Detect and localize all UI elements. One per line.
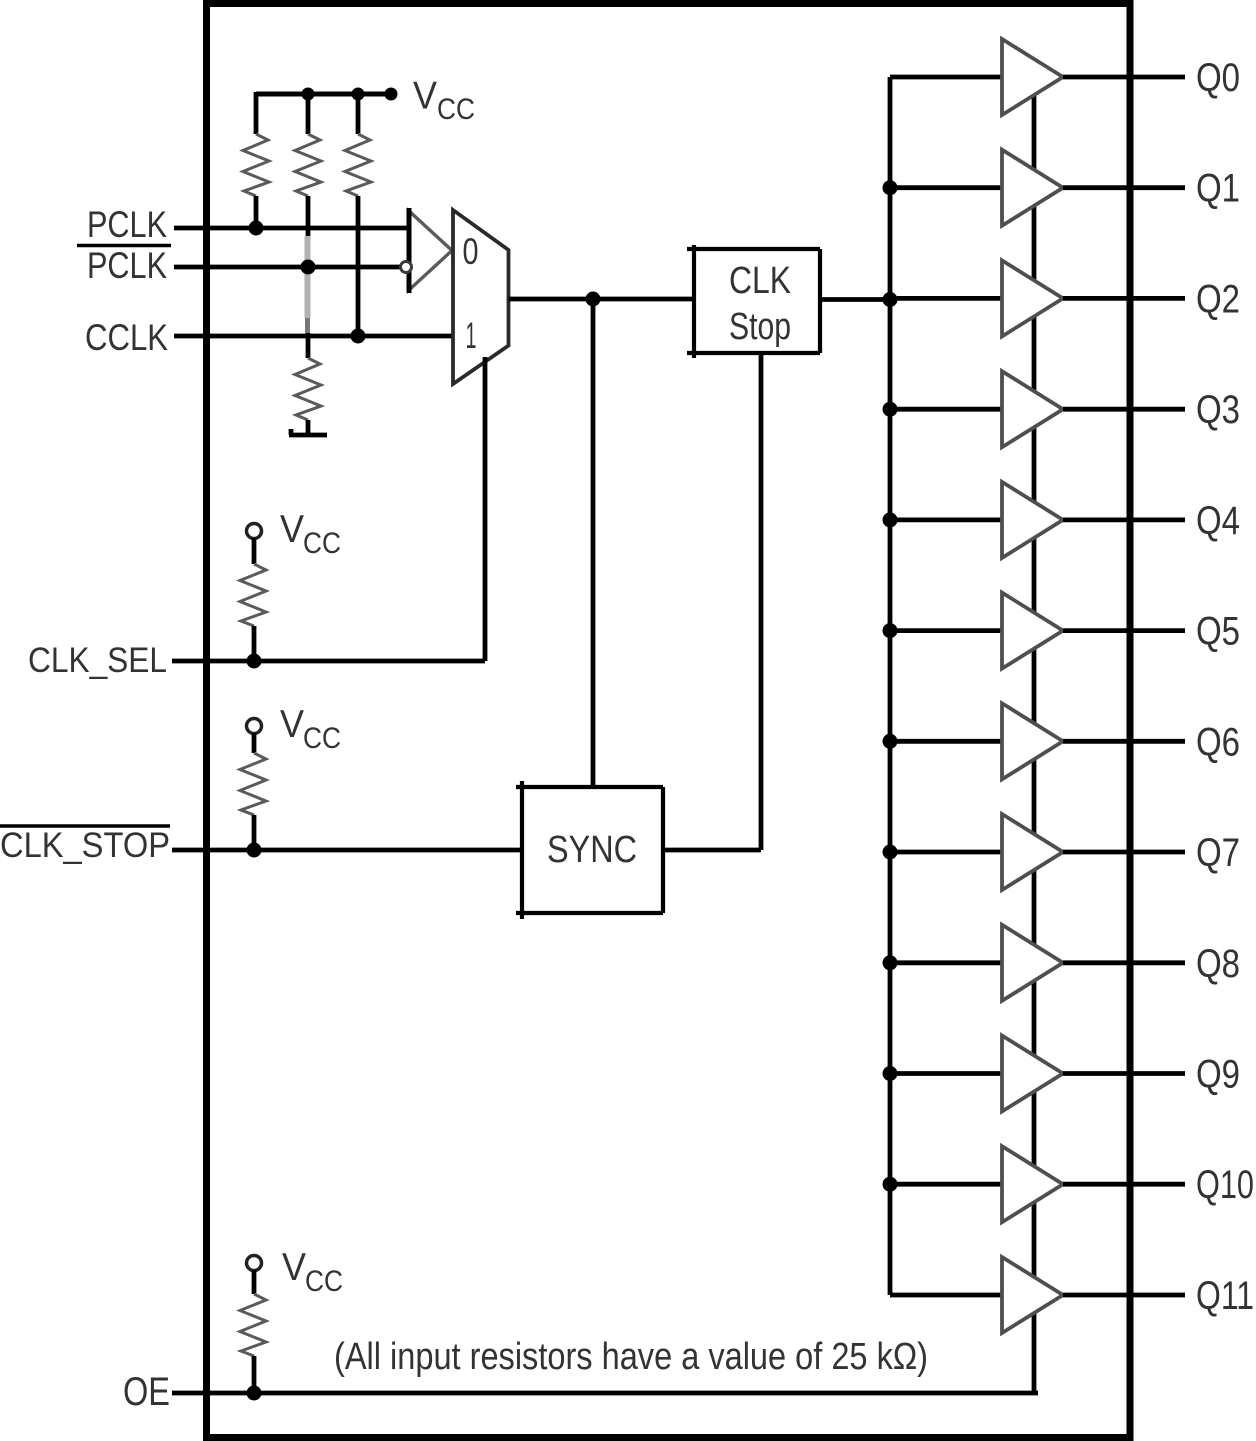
- input buffer U1 (differential receiver): [409, 208, 452, 293]
- PCLKb overline: [77, 244, 171, 248]
- Q9 label: [1196, 1053, 1240, 1097]
- inverting bubble on U1: [401, 262, 412, 273]
- junction PCLK/R1: [249, 221, 264, 236]
- resistor R6 (CLK_STOP pull-up): [240, 753, 266, 815]
- Q3 output wire: [1063, 407, 1185, 412]
- junction CLK_STOP/R6: [247, 843, 262, 858]
- CLK Stop block: [687, 245, 820, 358]
- svg-text:CC: CC: [303, 527, 341, 560]
- buffer Q2: [1002, 260, 1063, 336]
- buffer Q3: [1002, 371, 1063, 447]
- junction bus Q5: [883, 623, 898, 638]
- buffer Q8: [1002, 925, 1063, 1001]
- device boundary box: [207, 4, 1131, 1438]
- Q1 input wire: [890, 185, 1002, 190]
- junction at rail end: [385, 88, 398, 101]
- junction bus Q1: [883, 180, 898, 195]
- svg-text:(All input resistors have a va: (All input resistors have a value of 25 …: [334, 1336, 928, 1378]
- buffer Q4: [1002, 482, 1063, 558]
- junction bus Q3: [883, 402, 898, 417]
- svg-text:Stop: Stop: [729, 306, 791, 348]
- Q4 input wire: [890, 518, 1002, 523]
- buffer Q10: [1002, 1146, 1063, 1222]
- svg-text:CLK_STOP: CLK_STOP: [0, 826, 170, 865]
- SYNC block: [516, 781, 663, 919]
- junction CCLK/R3: [351, 329, 366, 344]
- junction on rail at R2: [302, 88, 315, 101]
- Vcc terminal (CLK_SEL): [247, 524, 262, 539]
- Vcc label (top): [413, 75, 475, 127]
- junction CLK Stop output / bus: [883, 292, 898, 307]
- wire CLK_SEL to mux select: [483, 357, 488, 661]
- junction on rail at R3: [352, 88, 365, 101]
- CCLK label: [85, 317, 168, 358]
- Q4 label: [1196, 499, 1240, 543]
- svg-text:PCLK: PCLK: [87, 204, 167, 245]
- wire faint vertical PCLKb to CCLK: [305, 236, 311, 333]
- mux input label 1: [466, 315, 477, 356]
- wire R6 bottom lead: [252, 815, 257, 850]
- Q7 input wire: [890, 850, 1002, 855]
- svg-text:Q1: Q1: [1196, 167, 1240, 211]
- svg-text:CLK: CLK: [729, 260, 791, 302]
- mux U2: [453, 210, 509, 384]
- Q3 label: [1196, 388, 1240, 432]
- wire mux output: [509, 297, 695, 302]
- Q11 output wire: [1063, 1293, 1185, 1298]
- junction bus Q6: [883, 734, 898, 749]
- svg-text:CLK_SEL: CLK_SEL: [28, 641, 167, 680]
- Q2 input wire: [890, 296, 1002, 301]
- Q6 input wire: [890, 739, 1002, 744]
- resistor R1 (PCLK pull-up): [243, 134, 269, 196]
- note text: [334, 1336, 928, 1378]
- buffer Q1: [1002, 150, 1063, 226]
- PCLK label: [87, 204, 167, 245]
- PCLKb label: [87, 245, 167, 286]
- wire SYNC output: [663, 848, 761, 853]
- OE label: [123, 1370, 170, 1414]
- wire R7 bottom lead: [252, 1356, 257, 1393]
- wire CCLK to resistor R4: [306, 333, 311, 358]
- wire R7 top lead: [252, 1270, 257, 1294]
- Vcc terminal (CLK_STOP): [247, 719, 262, 734]
- Vcc rail (top): [256, 92, 391, 97]
- buffer Q9: [1002, 1036, 1063, 1112]
- wire R2 top lead: [306, 92, 311, 134]
- svg-text:SYNC: SYNC: [547, 829, 637, 871]
- Vcc terminal (OE): [247, 1256, 262, 1271]
- wire R2 bottom lead: [306, 196, 311, 236]
- Q10 output wire: [1063, 1182, 1185, 1187]
- junction OE/R7: [247, 1386, 262, 1401]
- svg-text:Q5: Q5: [1196, 610, 1240, 654]
- svg-text:Q4: Q4: [1196, 499, 1240, 543]
- Q2 output wire: [1063, 296, 1185, 301]
- wire R5 top lead: [252, 538, 257, 564]
- Q9 input wire: [890, 1071, 1002, 1076]
- buffer Q6: [1002, 703, 1063, 779]
- Q7 output wire: [1063, 850, 1185, 855]
- OE wire: [172, 1391, 1038, 1396]
- Vcc label (OE): [282, 1246, 343, 1298]
- svg-text:V: V: [280, 508, 304, 551]
- svg-text:Q6: Q6: [1196, 720, 1240, 764]
- CLK_STOP label: [0, 826, 170, 865]
- junction bus Q8: [883, 955, 898, 970]
- buffer Q0: [1002, 39, 1063, 115]
- svg-text:Q7: Q7: [1196, 831, 1240, 875]
- resistor R2 (PCLKb pull-up): [295, 134, 321, 196]
- wire CLK_STOP: [172, 848, 522, 853]
- svg-text:0: 0: [463, 231, 479, 272]
- svg-text:Q11: Q11: [1196, 1274, 1254, 1318]
- CCLK input wire: [174, 334, 453, 339]
- Q3 input wire: [890, 407, 1002, 412]
- svg-text:CC: CC: [303, 722, 341, 755]
- PCLKb input wire: [174, 265, 401, 270]
- wire R3 bottom lead: [356, 196, 361, 336]
- svg-text:Q0: Q0: [1196, 56, 1240, 100]
- junction bus Q9: [883, 1066, 898, 1081]
- Q6 output wire: [1063, 739, 1185, 744]
- Q1 label: [1196, 167, 1240, 211]
- junction bus Q10: [883, 1177, 898, 1192]
- resistor R3 (CCLK pull-up): [345, 134, 371, 196]
- wire R6 top lead: [252, 733, 257, 753]
- mux input label 0: [463, 231, 479, 272]
- Vcc label (CLK_SEL): [280, 508, 341, 560]
- wire R5 bottom lead: [252, 626, 257, 661]
- resistor R5 (CLK_SEL pull-up): [240, 564, 266, 626]
- PCLK input wire: [174, 226, 409, 231]
- Q1 output wire: [1063, 185, 1185, 190]
- buffer Q7: [1002, 814, 1063, 890]
- Q11 input wire: [890, 1293, 1002, 1298]
- Vcc label (CLK_STOP): [280, 703, 341, 755]
- junction CLK_SEL/R5: [247, 654, 262, 669]
- buffer Q5: [1002, 593, 1063, 669]
- svg-text:Q3: Q3: [1196, 388, 1240, 432]
- ground: [289, 429, 327, 435]
- Q8 label: [1196, 942, 1240, 986]
- svg-text:CC: CC: [305, 1265, 343, 1298]
- resistor R7 (OE pull-up): [240, 1294, 266, 1356]
- svg-text:CCLK: CCLK: [85, 317, 168, 358]
- Q4 output wire: [1063, 518, 1185, 523]
- svg-text:CC: CC: [437, 93, 475, 126]
- junction bus Q7: [883, 845, 898, 860]
- svg-text:V: V: [280, 703, 304, 746]
- resistor R4 (pull-down): [295, 358, 321, 420]
- wire R3 top lead: [356, 92, 361, 134]
- svg-text:PCLK: PCLK: [87, 245, 167, 286]
- svg-text:1: 1: [466, 315, 477, 356]
- buffer Q11: [1002, 1257, 1063, 1333]
- wire CLK Stop output: [820, 297, 890, 302]
- Q10 input wire: [890, 1182, 1002, 1187]
- svg-text:Q10: Q10: [1196, 1163, 1254, 1207]
- wire R1 top lead: [254, 92, 259, 134]
- junction mux output / SYNC tap: [586, 292, 601, 307]
- Q7 label: [1196, 831, 1240, 875]
- svg-text:V: V: [282, 1246, 306, 1289]
- Q2 label: [1196, 277, 1240, 321]
- CLK_SEL label: [28, 641, 167, 680]
- Q5 output wire: [1063, 628, 1185, 633]
- wire CLK_SEL: [172, 659, 485, 664]
- svg-text:Q2: Q2: [1196, 277, 1240, 321]
- Q8 output wire: [1063, 960, 1185, 965]
- junction bus Q4: [883, 512, 898, 527]
- Q5 label: [1196, 610, 1240, 654]
- Q10 label: [1196, 1163, 1254, 1207]
- Q11 label: [1196, 1274, 1254, 1318]
- Q0 input wire: [890, 75, 1002, 80]
- junction PCLKb/R2: [301, 260, 316, 275]
- Q6 label: [1196, 720, 1240, 764]
- clock distribution bus: [888, 77, 893, 1295]
- output enable line vertical: [1032, 96, 1037, 1393]
- svg-text:OE: OE: [123, 1370, 170, 1414]
- svg-text:Q9: Q9: [1196, 1053, 1240, 1097]
- wire R4 bottom lead: [306, 420, 311, 434]
- wire SYNC tap vertical: [591, 299, 596, 787]
- svg-text:V: V: [413, 75, 437, 118]
- wire R1 bottom lead: [254, 196, 259, 228]
- wire SYNC to CLK Stop: [759, 353, 764, 850]
- svg-text:Q8: Q8: [1196, 942, 1240, 986]
- CLK_STOP overline: [0, 824, 170, 828]
- Q5 input wire: [890, 628, 1002, 633]
- Q0 label: [1196, 56, 1240, 100]
- Q8 input wire: [890, 960, 1002, 965]
- Q0 output wire: [1063, 75, 1185, 80]
- Q9 output wire: [1063, 1071, 1185, 1076]
